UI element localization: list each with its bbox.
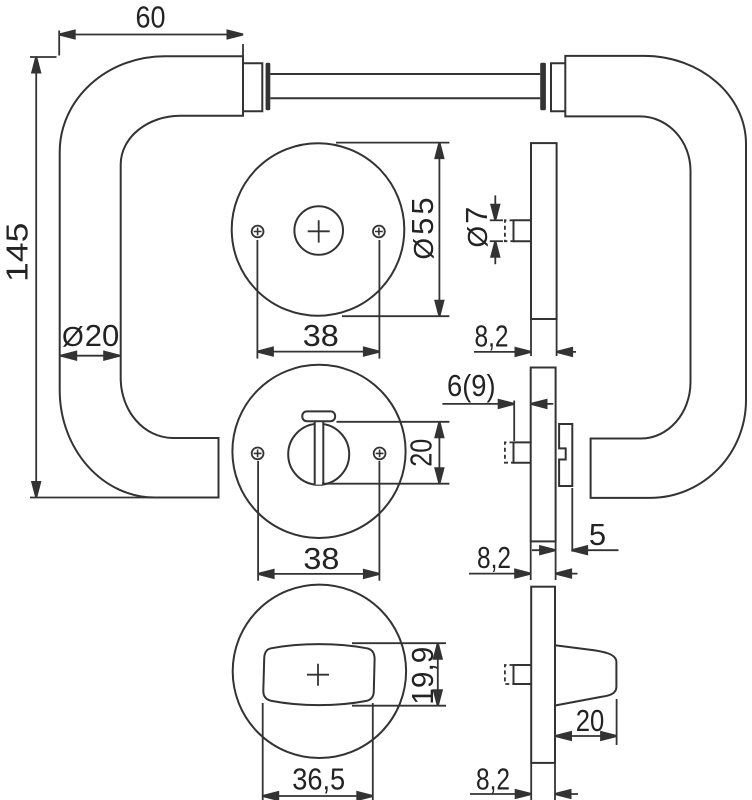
right lever handle xyxy=(565,56,746,498)
dimension 60 extension line left xyxy=(58,31,60,56)
dimension 8,2 bottom extension right xyxy=(554,763,556,800)
top rosette screw left xyxy=(252,226,264,238)
dimension 5 extension xyxy=(571,488,573,552)
dimension 36,5 line xyxy=(263,795,373,797)
thumbturn circle xyxy=(288,424,349,485)
dimension 19,9 extension top xyxy=(352,642,446,644)
right handle collar xyxy=(540,63,546,110)
turn knob side view plate with notch xyxy=(559,424,572,486)
dimension 6(9) arrow left xyxy=(442,403,514,405)
dimension 36,5 extension left xyxy=(262,703,264,800)
dimension 38 middle arrow left xyxy=(258,570,274,578)
svg-text:6(9): 6(9) xyxy=(447,368,496,403)
svg-text:60: 60 xyxy=(136,0,166,35)
dimension Ø55 arrow top xyxy=(435,143,443,159)
thumbturn cap xyxy=(302,411,335,421)
svg-text:8,2: 8,2 xyxy=(475,319,509,354)
dimension 36,5 extension right xyxy=(372,703,374,800)
top rosette xyxy=(232,143,405,316)
dimension 19,9 arrow bottom xyxy=(434,690,442,706)
svg-text:8,2: 8,2 xyxy=(477,540,511,575)
thumbturn bar xyxy=(315,421,324,484)
svg-text:Ø20: Ø20 xyxy=(62,318,119,353)
left lever handle xyxy=(60,56,243,497)
bottom side view pin xyxy=(514,665,532,684)
dimension 8,2 top extension left xyxy=(530,319,532,356)
dimension 38 top extension left xyxy=(256,240,258,359)
svg-text:19,9: 19,9 xyxy=(405,647,440,705)
dimension 145 arrow top xyxy=(32,57,40,73)
dimension Ø55 arrow bottom xyxy=(435,301,443,317)
dimension 38 middle extension right xyxy=(378,461,380,581)
dimension 60 line xyxy=(59,34,243,36)
dimension 19,9 arrow top xyxy=(434,643,442,659)
dimension 38 middle arrow right xyxy=(364,570,380,578)
dimension Ø55 extension bottom xyxy=(342,315,449,317)
dimension Ø55 line xyxy=(438,143,440,317)
dimension 38 top extension right xyxy=(378,240,380,359)
dimension 38 middle line xyxy=(258,573,379,575)
dimension 60 arrow right xyxy=(228,31,244,39)
svg-text:38: 38 xyxy=(303,541,339,576)
dimension 8,2 top extension right xyxy=(556,319,558,356)
top rosette centre cross xyxy=(308,220,330,242)
bottom grip cross xyxy=(307,664,329,686)
bottom escutcheon side view plate xyxy=(531,587,555,763)
top side view pin xyxy=(514,220,532,241)
dimension 38 top arrow right xyxy=(364,348,380,356)
right handle neck xyxy=(551,63,565,111)
dimension 6(9) arrow right xyxy=(531,403,553,405)
svg-text:20: 20 xyxy=(576,703,605,738)
dimension Ø20 arrow left xyxy=(61,352,76,360)
dimension 36,5 arrow left xyxy=(263,792,279,800)
dimension 38 top arrow left xyxy=(257,348,273,356)
dimension 20 extension top xyxy=(337,421,450,423)
dimension 60 arrow left xyxy=(59,31,74,39)
svg-text:Ø55: Ø55 xyxy=(405,197,440,259)
bottom thumb grip xyxy=(263,644,374,705)
dimension Ø20 arrow right xyxy=(104,352,120,360)
dimension 20 bottom arrow right xyxy=(601,732,617,740)
svg-text:8,2: 8,2 xyxy=(476,762,510,797)
dimension 8,2 middle extension right xyxy=(555,541,557,580)
left handle neck xyxy=(243,63,262,111)
dimension 20 arrow bottom xyxy=(435,468,443,484)
dimension 8,2 bottom arrow right xyxy=(555,793,578,795)
dimension 36,5 arrow right xyxy=(357,792,373,800)
top rosette screw right xyxy=(373,226,385,238)
dimension 20 bottom arrow left xyxy=(556,732,572,740)
dimension 8,2 middle arrow left xyxy=(469,573,531,575)
dimension 145 arrow bottom xyxy=(32,482,40,498)
dimension 19,9 line xyxy=(437,643,439,706)
dimension 38 top line xyxy=(257,351,379,353)
dimension 5 arrow left xyxy=(532,549,556,551)
middle side view pin hidden length dashed xyxy=(505,442,514,462)
svg-text:Ø7: Ø7 xyxy=(459,207,494,248)
middle escutcheon side view plate xyxy=(531,368,556,542)
top rosette centre hole xyxy=(294,206,343,255)
dimension Ø7 tick top xyxy=(490,219,503,221)
top escutcheon side view plate xyxy=(531,143,557,319)
spindle xyxy=(270,74,540,98)
dimension Ø20 line xyxy=(61,355,120,357)
svg-text:36,5: 36,5 xyxy=(292,762,345,797)
bottom rosette xyxy=(233,585,406,758)
dimension 19,9 extension bottom xyxy=(352,705,446,707)
middle side view pin xyxy=(514,442,531,462)
dimension 145 tick top xyxy=(30,56,57,58)
top side view pin hidden length dashed xyxy=(505,220,514,241)
dimension 60 extension line right xyxy=(242,44,244,56)
dimension 8,2 bottom extension left xyxy=(530,763,532,800)
dimension 38 middle extension left xyxy=(257,461,259,581)
dimension 8,2 top arrow right xyxy=(557,351,576,353)
left handle collar xyxy=(266,63,271,110)
dimension Ø7 arrow top xyxy=(494,195,496,220)
dimension 20 bottom extension xyxy=(616,699,618,745)
middle rosette screw right xyxy=(374,448,386,460)
dimension 145 tick bottom xyxy=(30,497,155,499)
dimension Ø55 extension top xyxy=(336,142,449,144)
dimension Ø7 arrow bottom xyxy=(494,241,496,264)
dimension 8,2 middle arrow right xyxy=(556,573,578,575)
bottom side view pin hidden length dashed xyxy=(505,665,514,684)
bottom turn knob side view xyxy=(555,645,616,705)
middle rosette (WC turn) xyxy=(232,365,405,538)
dimension 20 extension bottom xyxy=(322,483,449,485)
dimension 8,2 top arrow left xyxy=(474,351,531,353)
dimension 5 arrow right xyxy=(572,549,619,551)
svg-text:5: 5 xyxy=(589,517,606,552)
middle rosette screw left xyxy=(252,448,264,460)
dimension 8,2 middle extension left xyxy=(530,541,532,580)
dimension 20 line xyxy=(438,422,440,484)
svg-text:145: 145 xyxy=(0,223,35,282)
dimension 145 line xyxy=(35,57,37,498)
svg-text:20: 20 xyxy=(403,439,438,467)
dimension 8,2 bottom arrow left xyxy=(470,793,531,795)
dimension Ø7 tick bottom xyxy=(490,240,503,242)
dimension 6(9) extension xyxy=(513,401,515,442)
dimension 20 arrow top xyxy=(435,422,443,438)
svg-text:38: 38 xyxy=(303,318,339,353)
dimension 20 bottom line xyxy=(556,735,617,737)
